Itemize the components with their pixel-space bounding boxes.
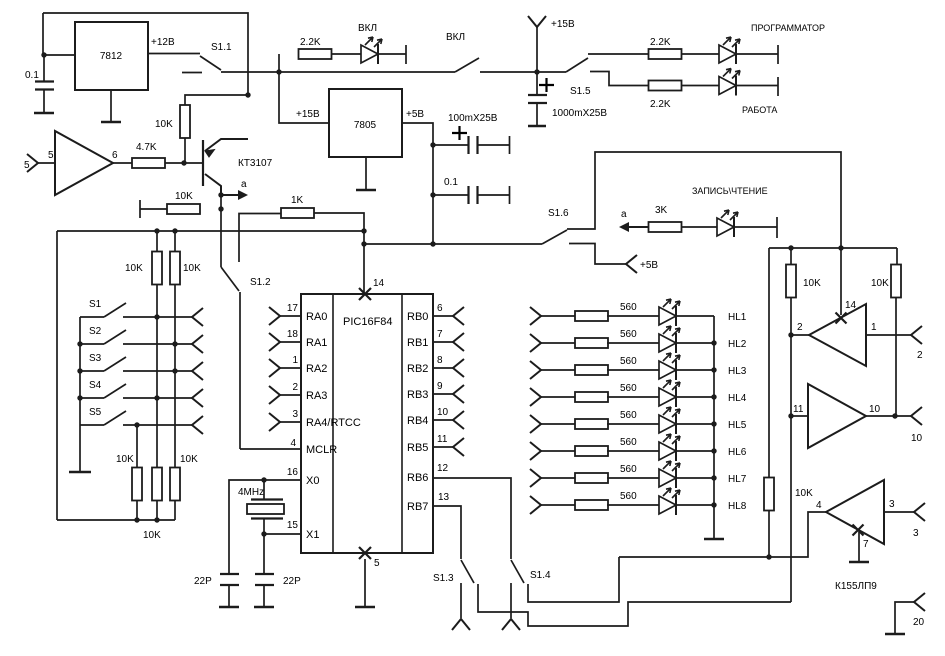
node bus HL7 [711, 475, 716, 480]
power pin 7 X on U1.4 [853, 525, 864, 536]
svg-text:14: 14 [373, 278, 385, 289]
node +15V rail at 7805 branch [276, 69, 281, 74]
wire S5 output [123, 424, 192, 426]
wire +5V bus y231 [57, 230, 364, 232]
capacitor C1 0.1 plates [35, 82, 54, 90]
node bottom bus R11 [154, 517, 159, 522]
switch S1.1 arm [200, 56, 221, 70]
svg-text:S1.2: S1.2 [250, 277, 271, 288]
wire input to R14 [541, 315, 576, 317]
terminal arrow input HL8 [530, 496, 541, 514]
terminal bar after C2 [509, 136, 511, 154]
svg-text:0.1: 0.1 [444, 177, 458, 188]
wire LED HL6 to bus [676, 450, 714, 452]
svg-text:RB5: RB5 [407, 442, 428, 454]
resistor R14 560 [575, 311, 608, 321]
wire R21 to LED HL8 [607, 504, 659, 506]
wire S5 left contact [80, 424, 104, 426]
wire R9 bottom through S2 S3 rows [174, 284, 176, 468]
svg-text:13: 13 [438, 492, 450, 503]
svg-text:560: 560 [620, 302, 637, 313]
ground under pin 7 [849, 561, 869, 564]
svg-text:8: 8 [437, 355, 443, 366]
node bus HL8 [711, 502, 716, 507]
wire input to R19 [541, 450, 576, 452]
node emitter rail junction [245, 92, 250, 97]
terminal arrow input HL5 [530, 415, 541, 433]
svg-text:0.1: 0.1 [25, 70, 39, 81]
voltage regulator 7805 [329, 89, 402, 157]
crystal ZQ1 4MHz [247, 500, 284, 519]
LED HL1 [659, 299, 680, 326]
wire +15V down to 7805 input [279, 72, 329, 123]
resistor R5 10K [180, 105, 190, 138]
wire R24 top from bus [768, 248, 770, 478]
node bus HL2 [711, 340, 716, 345]
svg-text:S3: S3 [89, 353, 102, 364]
node bus to R22 [788, 245, 793, 250]
svg-text:10K: 10K [871, 278, 889, 289]
terminal bar after LED РАБОТА [777, 77, 779, 96]
terminal arrow input HL7 [530, 469, 541, 487]
ground under HL bus [704, 538, 724, 541]
wire R20 to LED HL7 [607, 477, 659, 479]
svg-text:RA2: RA2 [306, 363, 327, 375]
switch S1.6 arm [542, 230, 567, 244]
wire 7805 ground pin [365, 157, 367, 189]
LED HL6 [659, 434, 680, 461]
svg-text:100mX25В: 100mX25В [448, 113, 498, 124]
wire C5 to ground [228, 585, 230, 606]
svg-text:16: 16 [287, 467, 299, 478]
pin 14 power X [359, 288, 371, 300]
wire input to R17 [541, 396, 576, 398]
IC U2 PIC16F84 body [301, 294, 433, 553]
node S2 row [172, 341, 177, 346]
svg-text:S1.6: S1.6 [548, 208, 569, 219]
node collector a [218, 192, 223, 197]
LED HL2 [659, 326, 680, 353]
arrow node a [221, 194, 243, 196]
node X1 [261, 531, 266, 536]
svg-text:S1.1: S1.1 [211, 42, 232, 53]
svg-text:RB6: RB6 [407, 472, 428, 484]
switch S1.4 arm [511, 560, 524, 583]
resistor R12 10K [170, 468, 180, 501]
terminal arrow RA2 [269, 359, 280, 377]
svg-text:X0: X0 [306, 475, 319, 487]
svg-text:a: a [241, 179, 247, 190]
wire U1.1 output to node [791, 334, 809, 336]
node +5V at capacitor C2 [430, 142, 435, 147]
wire pin RA1 [280, 341, 301, 343]
wire LED HL7 to bus [676, 477, 714, 479]
svg-text:+5В: +5В [640, 260, 658, 271]
svg-text:6: 6 [112, 150, 118, 161]
wire S4 left contact [80, 397, 104, 399]
node S3 row [172, 368, 177, 373]
svg-text:S2: S2 [89, 326, 102, 337]
wire LED РАБОТА to terminal [736, 85, 778, 87]
svg-text:HL8: HL8 [728, 501, 747, 512]
wire pin RA0 [280, 315, 301, 317]
svg-text:10K: 10K [183, 263, 201, 274]
svg-text:10K: 10K [795, 488, 813, 499]
terminal arrow S3 [192, 362, 203, 380]
LED HL8 [659, 488, 680, 515]
wire C6 to ground [263, 585, 265, 606]
wire LED ВКЛ to terminal [378, 53, 406, 55]
svg-text:ПРОГРАММАТОР: ПРОГРАММАТОР [751, 23, 825, 33]
svg-text:18: 18 [287, 329, 299, 340]
wire pin RB2 [433, 367, 453, 369]
svg-text:HL3: HL3 [728, 366, 747, 377]
pin 5 ground X [359, 547, 371, 559]
resistor R9 10K [170, 252, 180, 285]
svg-text:10K: 10K [180, 454, 198, 465]
svg-text:RB4: RB4 [407, 415, 428, 427]
wire R19 to LED HL6 [607, 450, 659, 452]
node bottom bus R10 [134, 517, 139, 522]
ground under pin 5 [355, 606, 375, 609]
svg-text:560: 560 [620, 464, 637, 475]
svg-text:9: 9 [437, 381, 443, 392]
switch ВКЛ arm [455, 58, 479, 72]
svg-text:10K: 10K [116, 454, 134, 465]
node X0 [261, 477, 266, 482]
svg-text:S1: S1 [89, 299, 102, 310]
terminal arrow RB2 [453, 359, 464, 377]
node pin10 pullup [892, 413, 897, 418]
wire pin RB6 to S1.4 [433, 478, 511, 559]
capacitor C4 bottom lead [536, 103, 538, 125]
terminal arrow S4 [192, 389, 203, 407]
svg-text:1: 1 [292, 355, 298, 366]
terminal arrow input HL3 [530, 361, 541, 379]
switch S3 arm [104, 357, 126, 371]
terminal bar after LED ПРОГРАММАТОР [777, 45, 779, 64]
wire 7812 ground pin [110, 90, 112, 121]
transistor Q1 КТ3107 [203, 139, 248, 195]
svg-text:MCLR: MCLR [306, 444, 337, 456]
terminal arrow RB1 [453, 333, 464, 351]
svg-text:3K: 3K [655, 205, 668, 216]
terminal bar after LED ЗАПИСЬ [776, 217, 778, 238]
terminal arrow RA1 [269, 333, 280, 351]
wire pin RB5 [433, 446, 453, 448]
wire R11 bottom [156, 500, 158, 520]
svg-text:HL1: HL1 [728, 312, 747, 323]
inverter U1.1 pins 1-2 [809, 304, 866, 366]
svg-text:4.7K: 4.7K [136, 142, 157, 153]
svg-text:560: 560 [620, 356, 637, 367]
svg-text:+15В: +15В [551, 19, 575, 30]
switch S1 arm [104, 303, 126, 317]
wire left common bus [79, 317, 81, 425]
switch S2 arm [104, 330, 126, 344]
wire R23 bottom to pin 10 node [895, 297, 897, 416]
svg-text:6: 6 [437, 303, 443, 314]
node bus HL4 [711, 394, 716, 399]
wire R3 to LED РАБОТА [682, 85, 720, 87]
svg-text:10: 10 [869, 404, 881, 415]
node bus to R9 [172, 228, 177, 233]
node left bus y371 [77, 368, 82, 373]
switch S1.3 arm [461, 560, 474, 583]
svg-text:20: 20 [913, 617, 925, 628]
node R6 junction [218, 206, 223, 211]
wire terminal to buffer input [38, 162, 55, 164]
resistor R1 2.2K [299, 49, 332, 59]
resistor R20 560 [575, 473, 608, 483]
wire R23 top lead [896, 248, 898, 265]
terminal input 5 [27, 154, 38, 172]
svg-text:S1.4: S1.4 [530, 570, 551, 581]
wire R5 bottom to base node [184, 138, 186, 163]
resistor R22 10K [786, 265, 796, 298]
wire frame left down [56, 231, 58, 520]
wire R12 bottom [174, 500, 176, 520]
svg-text:560: 560 [620, 329, 637, 340]
svg-text:2: 2 [917, 350, 923, 361]
wire S1.1 output rail y72 [221, 71, 455, 73]
wire input to R21 [541, 504, 576, 506]
wire S1.3 contact to snake B [478, 584, 791, 626]
svg-text:2.2K: 2.2K [650, 99, 671, 110]
terminal arrow input HL6 [530, 442, 541, 460]
terminal below S1.3 [452, 619, 470, 630]
resistor R8 10K [152, 252, 162, 285]
svg-text:560: 560 [620, 491, 637, 502]
wire LED HL5 to bus [676, 423, 714, 425]
svg-text:10K: 10K [143, 530, 161, 541]
node R7/pin14 at bus [361, 228, 366, 233]
svg-text:4: 4 [290, 438, 296, 449]
wire pin MCLR to S1.2 [240, 292, 301, 449]
wire input to R18 [541, 423, 576, 425]
node bus HL5 [711, 421, 716, 426]
wire U1.1 input from terminal [866, 334, 911, 336]
svg-text:+5В: +5В [406, 109, 424, 120]
wire R4 to base node [165, 162, 202, 164]
terminal arrow input HL2 [530, 334, 541, 352]
wire 7812 output to switch S1.1 [148, 53, 200, 55]
svg-text:ЗАПИСЬ\ЧТЕНИЕ: ЗАПИСЬ\ЧТЕНИЕ [692, 186, 768, 196]
capacitor C3 0.1 plates [469, 186, 478, 204]
wire R16 to LED HL3 [607, 369, 659, 371]
node S1 row [154, 314, 159, 319]
inverter U1.4 pins 4-3 [826, 480, 884, 544]
svg-text:14: 14 [845, 300, 857, 311]
ground left switch bus [69, 471, 91, 474]
wire LED ЗАПИСЬ to terminal [734, 226, 777, 228]
svg-text:RA4/RTCC: RA4/RTCC [306, 417, 361, 429]
svg-text:RA3: RA3 [306, 390, 327, 402]
voltage regulator 7812 [75, 22, 148, 90]
terminal arrow input HL1 [530, 307, 541, 325]
svg-text:2.2K: 2.2K [650, 37, 671, 48]
node left bus y344 [77, 341, 82, 346]
wire crystal to X1 node [263, 519, 265, 535]
svg-text:11: 11 [437, 434, 448, 445]
ground under C1 [34, 112, 54, 115]
wire LED HL1 to bus [676, 315, 714, 317]
svg-text:PIC16F84: PIC16F84 [343, 316, 393, 328]
wire to +15V node [480, 71, 566, 73]
svg-text:S4: S4 [89, 380, 102, 391]
switch S4 arm [104, 384, 126, 398]
svg-text:10K: 10K [155, 119, 173, 130]
wire R6 left to terminal bar [140, 208, 167, 210]
svg-text:S1.3: S1.3 [433, 573, 454, 584]
capacitor C1 0.1 top lead [43, 55, 45, 81]
LED HL3 [659, 353, 680, 380]
wire to capacitor C2 100m [433, 144, 468, 146]
wire pin RB0 [433, 315, 453, 317]
node bus HL6 [711, 448, 716, 453]
wire R17 to LED HL4 [607, 396, 659, 398]
terminal arrow RB5 [453, 438, 464, 456]
svg-text:RB7: RB7 [407, 501, 428, 513]
node rail at +5V drop [430, 241, 435, 246]
svg-text:1K: 1K [291, 195, 304, 206]
LED ПРОГРАММАТОР [719, 37, 740, 64]
svg-text:S1.5: S1.5 [570, 86, 591, 97]
terminal bar after C3 [509, 186, 511, 204]
svg-text:7: 7 [863, 539, 869, 550]
wire bottom bus y520 [57, 519, 175, 521]
wire S4 output [123, 397, 192, 399]
svg-text:3: 3 [292, 409, 298, 420]
wire X0 node to crystal [263, 480, 265, 499]
svg-text:ВКЛ: ВКЛ [446, 32, 465, 43]
ground under C5 [219, 606, 239, 609]
svg-text:КТ3107: КТ3107 [238, 158, 273, 169]
wire R24 bottom to bus1 [768, 510, 770, 557]
wire pin RA4/RTCC [280, 421, 301, 423]
switch S1.5 arm [566, 58, 588, 72]
+15V terminal stem [536, 27, 538, 72]
node S4 row [154, 395, 159, 400]
wire R10 bottom [136, 500, 138, 520]
terminal arrow S5 [192, 416, 203, 434]
LED HL7 [659, 461, 680, 488]
svg-text:RB3: RB3 [407, 389, 428, 401]
label C2 plus sign [452, 126, 467, 140]
resistor R23 10K [891, 265, 901, 298]
wire pin X1 [264, 533, 301, 535]
wire S1.2 fixed contact up to 1K [239, 214, 281, 263]
LED HL4 [659, 380, 680, 407]
LED РАБОТА [719, 69, 740, 96]
wire S1.6 upper contact to loop [567, 152, 841, 248]
capacitor C2 100mX25В plates [469, 136, 478, 154]
wire pin RB1 [433, 341, 453, 343]
wire pin 5 to ground [364, 559, 366, 606]
terminal bar after LED ВКЛ [405, 45, 407, 64]
wire X0 branch left to C5 [229, 480, 264, 573]
node bus to R8 [154, 228, 159, 233]
node inverter U1.3 input [788, 413, 793, 418]
wire R8 bottom to S1 row and down [156, 284, 158, 398]
wire input to R16 [541, 369, 576, 371]
svg-text:7812: 7812 [100, 51, 123, 62]
svg-text:560: 560 [620, 410, 637, 421]
wire S1.6 lower contact to +5V terminal [569, 244, 626, 265]
svg-text:X1: X1 [306, 529, 319, 541]
LED ЗАПИСЬ-ЧТЕНИЕ [717, 210, 738, 237]
wire R14 to LED HL1 [607, 315, 659, 317]
svg-text:1: 1 [871, 322, 877, 333]
svg-text:10: 10 [437, 407, 449, 418]
svg-text:10K: 10K [175, 191, 193, 202]
svg-text:10K: 10K [803, 278, 821, 289]
wire S5 node down to R10 [136, 425, 138, 468]
node R24 at bus1 [766, 554, 771, 559]
resistor R19 560 [575, 446, 608, 456]
resistor R13 3K [649, 222, 682, 232]
arrow to node a [625, 226, 649, 228]
wire HL common bus [713, 316, 715, 538]
wire terminal 20 to ground [895, 602, 914, 633]
svg-text:РАБОТА: РАБОТА [742, 105, 777, 115]
wire +5V rail y244 [364, 243, 542, 245]
wire input to R20 [541, 477, 576, 479]
terminal bar left of R6 [139, 200, 141, 218]
wire pin RB4 [433, 419, 453, 421]
wire LED ПРОГРАММАТОР to terminal [736, 53, 778, 55]
resistor R4 4.7K [132, 158, 165, 168]
resistor R3 2.2K [649, 81, 682, 91]
wire pin X0 [264, 479, 301, 481]
node bus to X14 feed [838, 245, 843, 250]
wire emitter rail branch to R5 [185, 95, 248, 105]
svg-text:7805: 7805 [354, 120, 377, 131]
label C4 plus sign [539, 78, 554, 92]
resistor R18 560 [575, 419, 608, 429]
wire S1 output [123, 316, 192, 318]
switch S5 arm [104, 411, 126, 425]
resistor R11 10K [152, 468, 162, 501]
svg-text:RA0: RA0 [306, 311, 327, 323]
terminal below S1.4 [502, 619, 520, 630]
wire S1.4 lower terminal stem [510, 583, 512, 618]
svg-text:К155ЛП9: К155ЛП9 [835, 581, 877, 592]
wire bus1 to U1.4 input [619, 512, 826, 557]
svg-text:15: 15 [287, 520, 299, 531]
resistor R2 2.2K [649, 49, 682, 59]
wire X1 branch down to C6 [263, 534, 265, 573]
terminal 10 [911, 407, 922, 425]
svg-text:HL7: HL7 [728, 474, 747, 485]
wire R2 to LED ПРОГРАММАТОР [682, 53, 720, 55]
svg-text:10: 10 [911, 433, 923, 444]
svg-text:2: 2 [797, 322, 803, 333]
capacitor C4 1000mX25В plates [528, 95, 547, 103]
node inverter U1.1 output [788, 332, 793, 337]
wire S3 left contact [80, 370, 104, 372]
svg-text:HL4: HL4 [728, 393, 747, 404]
terminal +5В [626, 255, 637, 273]
wire R8 top lead [156, 231, 158, 252]
resistor R15 560 [575, 338, 608, 348]
wire S2 left contact [80, 343, 104, 345]
svg-text:3: 3 [889, 499, 895, 510]
capacitor C5 22P plates [220, 574, 239, 585]
wire LED HL2 to bus [676, 342, 714, 344]
terminal 20 [914, 593, 925, 611]
wire S1.5 upper contact to R2 [588, 53, 649, 55]
